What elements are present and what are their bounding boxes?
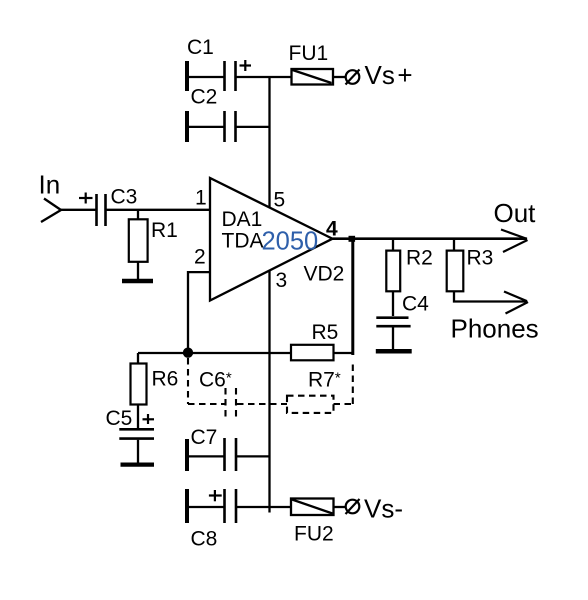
wire pin 2 stub xyxy=(188,272,210,352)
svg-text:R2: R2 xyxy=(406,247,433,270)
svg-text:C7: C7 xyxy=(191,426,218,449)
svg-text:R1: R1 xyxy=(151,219,178,242)
ground under C4 xyxy=(376,349,412,354)
fuse FU1 xyxy=(292,69,334,85)
resistor R3 xyxy=(453,240,455,251)
wire dashed R7 to output line xyxy=(334,403,353,405)
svg-text:C4: C4 xyxy=(402,293,429,316)
capacitor C5 polarity + xyxy=(143,414,155,424)
wire dashed up to output line xyxy=(352,362,354,404)
wire C1 to FU1 xyxy=(237,76,292,78)
svg-text:FU1: FU1 xyxy=(289,42,329,65)
svg-text:2: 2 xyxy=(194,246,206,269)
wire output pin 4 xyxy=(333,237,528,240)
capacitor C7 xyxy=(187,438,236,471)
svg-text:C8: C8 xyxy=(191,528,218,551)
capacitor C3 polarity + xyxy=(79,193,93,204)
svg-text:C2: C2 xyxy=(191,86,218,109)
svg-text:C5: C5 xyxy=(106,407,133,430)
svg-text:FU2: FU2 xyxy=(294,523,334,546)
arrow Phones xyxy=(504,292,528,314)
svg-text:Phones: Phones xyxy=(451,314,539,344)
svg-text:5: 5 xyxy=(274,189,286,212)
fuse FU2 xyxy=(291,499,334,516)
resistor R2 xyxy=(392,240,394,251)
svg-text:2050: 2050 xyxy=(262,228,319,256)
terminal Vs- circle xyxy=(346,499,360,514)
resistor R1 xyxy=(137,210,139,220)
svg-text:DA1: DA1 xyxy=(222,208,263,231)
wire output down to R5 xyxy=(351,239,354,355)
capacitor C8 xyxy=(187,489,236,523)
wire top rail to pin 5 xyxy=(268,77,270,208)
capacitor C3 xyxy=(97,194,106,226)
node output junction xyxy=(349,236,356,242)
svg-text:In: In xyxy=(39,170,61,200)
svg-text:Vs-: Vs- xyxy=(364,494,403,524)
svg-text:TDA: TDA xyxy=(222,230,264,253)
node junction dot xyxy=(183,348,193,358)
wire input to C3 xyxy=(59,209,96,211)
svg-text:R6: R6 xyxy=(152,368,179,391)
resistor R7 dashed xyxy=(287,396,334,413)
capacitor C5 xyxy=(119,429,154,438)
wire feedback node to R5 xyxy=(138,352,291,354)
ground under R1 xyxy=(122,279,153,284)
svg-text:Out: Out xyxy=(494,198,537,228)
svg-text:R3: R3 xyxy=(467,247,494,270)
resistor R5 xyxy=(291,345,334,361)
wire C8 to FU2 xyxy=(237,506,291,508)
arrow Out xyxy=(501,230,528,253)
capacitor C4 xyxy=(376,318,410,327)
wire C7 to rail xyxy=(237,455,271,457)
wire FU1 to terminal xyxy=(333,76,346,78)
wire C3 to pin 1 xyxy=(107,209,210,211)
capacitor C2 xyxy=(187,111,236,142)
input arrow xyxy=(41,199,61,223)
svg-text:1: 1 xyxy=(195,187,207,210)
wire pin 3 rail down xyxy=(268,271,270,513)
wire C2 to rail xyxy=(237,126,271,128)
wire FU2 to terminal xyxy=(334,506,346,508)
svg-text:4: 4 xyxy=(326,218,338,241)
capacitor C1 xyxy=(187,61,236,91)
capacitor C1 polarity + xyxy=(240,60,252,71)
wire dashed node down xyxy=(187,358,189,404)
svg-text:Vs+: Vs+ xyxy=(365,60,413,90)
terminal Vs+ circle xyxy=(346,70,360,85)
svg-text:C1: C1 xyxy=(187,36,214,59)
svg-text:R5: R5 xyxy=(312,321,339,344)
ground under C5 xyxy=(121,463,155,467)
wire dashed C6 to R7 xyxy=(237,403,287,405)
resistor R6 xyxy=(137,353,139,364)
capacitor C6 dashed plates xyxy=(226,388,237,420)
op-amp DA1 triangle xyxy=(210,178,333,301)
svg-text:VD2: VD2 xyxy=(304,263,345,286)
svg-text:C3: C3 xyxy=(111,186,138,209)
wire dashed node to C6 xyxy=(188,403,225,405)
svg-text:3: 3 xyxy=(276,269,288,292)
capacitor C8 polarity + xyxy=(209,490,222,501)
